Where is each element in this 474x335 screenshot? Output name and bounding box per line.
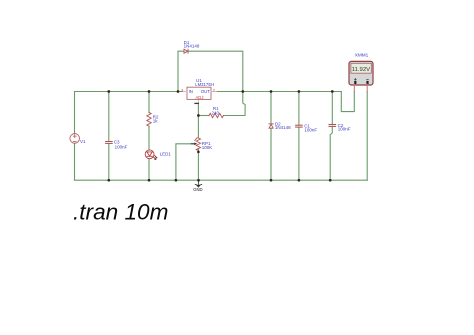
node: ground junction at D2 <box>270 179 273 182</box>
wire: V1 bottom lead <box>74 143 76 180</box>
svg-text:ADJ: ADJ <box>196 95 204 100</box>
svg-text:1k: 1k <box>153 119 159 124</box>
capacitor C2 <box>329 125 336 127</box>
node: ground junction at wiper <box>175 179 178 182</box>
RP1 bottom pin dot <box>197 151 200 154</box>
svg-text:LED1: LED1 <box>160 151 172 156</box>
node: ground junction at GND symbol <box>197 179 200 182</box>
svg-text:LM317EH: LM317EH <box>195 82 214 87</box>
wire: input top rail <box>75 91 183 93</box>
node: output junction at C1 <box>298 90 301 93</box>
voltage source V1 <box>70 134 80 144</box>
wire: C3 lower lead <box>108 144 110 181</box>
wire: C2 lower lead with jog <box>330 126 332 180</box>
wire: LED1 lower lead <box>148 159 150 181</box>
wire: D2 upper lead <box>270 92 272 124</box>
wire: meter minus to ground rail <box>366 92 368 181</box>
capacitor C1 <box>296 125 303 127</box>
svg-text:100nF: 100nF <box>338 127 351 132</box>
resistor R2 <box>147 112 151 126</box>
wire: C3 upper lead <box>108 92 110 142</box>
svg-text:11.92V: 11.92V <box>352 67 370 73</box>
svg-text:100nF: 100nF <box>115 144 128 149</box>
node: ground junction at C1 <box>298 179 301 182</box>
wire: D1 cathode to output node <box>189 51 243 91</box>
svg-text:V1: V1 <box>80 139 86 144</box>
svg-text:IN: IN <box>189 89 193 94</box>
node: ground junction at C2 <box>329 179 332 182</box>
RP1 wiper arrow <box>191 143 194 145</box>
potentiometer RP1 <box>196 138 200 151</box>
svg-text:100K: 100K <box>202 145 213 150</box>
wire: output to meter plus <box>341 92 354 112</box>
wire: RP1 wiper to ground <box>176 144 194 180</box>
pin 3 stub (IN) <box>183 91 187 93</box>
wire: ADJ pin to R1 node <box>197 104 199 116</box>
node: output junction at C2 <box>331 90 334 93</box>
ground symbol GND <box>195 180 202 187</box>
LED LED1 <box>145 150 157 160</box>
wire: C2 upper lead <box>331 92 333 125</box>
wire: R2 upper lead <box>148 92 150 113</box>
wire: R1 node to RP1 top <box>197 116 199 139</box>
svg-text:OUT: OUT <box>201 89 210 94</box>
wire: R1 left lead <box>198 115 209 117</box>
svg-text:.tran 10m: .tran 10m <box>73 199 168 224</box>
node: output junction at D1/R1 <box>241 90 244 93</box>
wire: R2 to LED1 <box>148 126 150 150</box>
node: ground junction at LED1 <box>148 179 151 182</box>
resistor R1 <box>209 113 223 117</box>
wire: C1 upper lead <box>298 92 300 126</box>
diode D2 <box>269 124 273 128</box>
node: ADJ/R1/RP1 junction <box>197 114 200 117</box>
node: top rail junction at R2 <box>148 90 151 93</box>
svg-text:1N4148: 1N4148 <box>184 44 200 49</box>
wire: D2 lower lead <box>270 128 272 180</box>
svg-text:XMM1: XMM1 <box>355 53 369 58</box>
pin 2 stub (OUT) <box>211 91 217 93</box>
wire: ground bottom rail <box>75 179 368 181</box>
wire: output rail <box>217 91 342 93</box>
node: ground junction at C3 <box>107 179 110 182</box>
wire: V1 top lead <box>74 92 76 134</box>
pin 1 stub (ADJ) <box>197 100 199 104</box>
capacitor C3 <box>106 142 113 144</box>
pin 1 tick (ADJ) <box>195 102 198 104</box>
RP1 percent mark <box>195 138 197 141</box>
svg-text:GND: GND <box>193 187 202 192</box>
regulator U1 LM317 <box>187 87 211 99</box>
node: top rail junction at C3 <box>107 90 110 93</box>
svg-text:1N4148: 1N4148 <box>275 125 291 130</box>
svg-text:100nF: 100nF <box>304 127 317 132</box>
wire: RP1 bottom to ground rail <box>197 149 199 181</box>
wire: C1 lower lead <box>298 127 300 180</box>
diode D1 <box>184 49 188 53</box>
node: top rail junction at D1 branch <box>177 90 180 93</box>
node: output junction at D2 <box>270 90 273 93</box>
wire: R1 right lead jog to output <box>224 92 245 116</box>
multimeter XMM1 <box>349 61 373 91</box>
wire: up to D1 anode <box>178 51 184 91</box>
svg-text:240: 240 <box>212 110 220 115</box>
